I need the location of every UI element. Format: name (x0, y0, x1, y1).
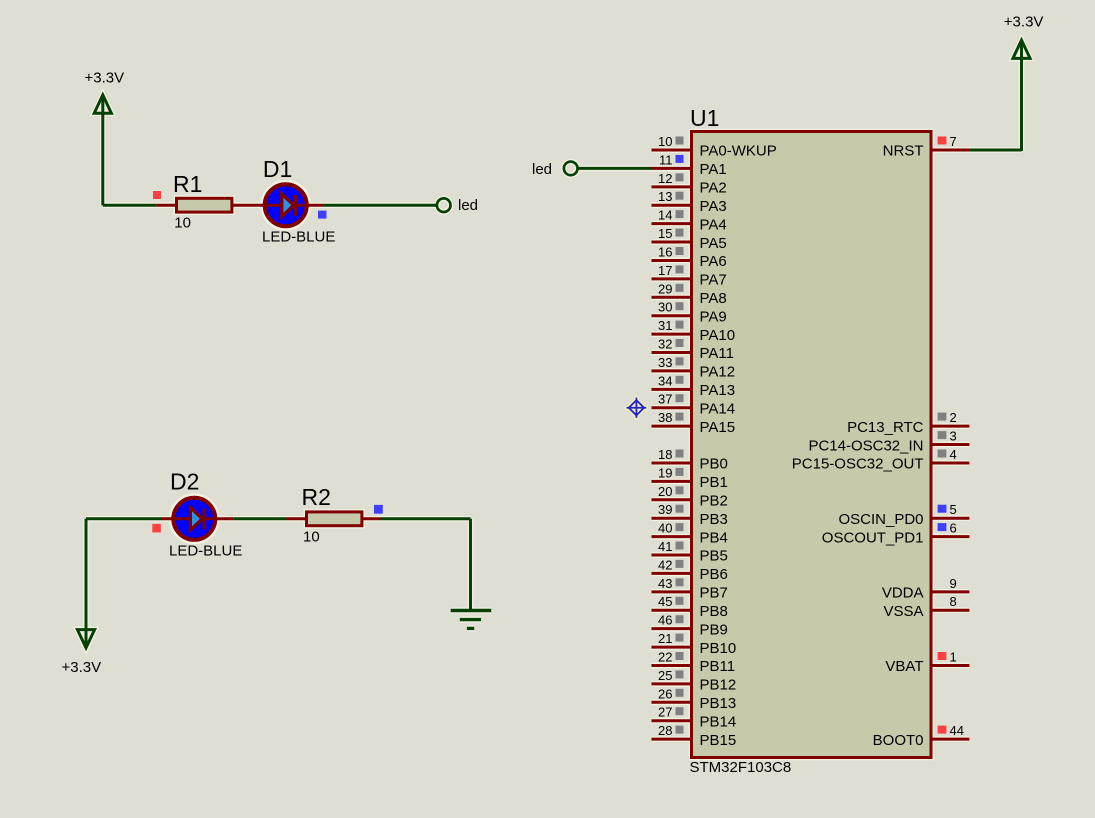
svg-text:PB13: PB13 (700, 695, 737, 712)
svg-text:37: 37 (658, 392, 672, 407)
svg-text:+3.3V: +3.3V (85, 70, 125, 87)
svg-text:PC13_RTC: PC13_RTC (847, 419, 924, 436)
svg-text:LED-BLUE: LED-BLUE (262, 228, 335, 245)
svg-text:13: 13 (658, 189, 672, 204)
svg-text:15: 15 (658, 226, 672, 241)
svg-text:10: 10 (174, 215, 191, 232)
svg-text:PA6: PA6 (700, 253, 727, 270)
svg-text:6: 6 (950, 521, 957, 536)
svg-text:34: 34 (658, 373, 672, 388)
svg-text:PB10: PB10 (700, 640, 737, 657)
svg-text:PB12: PB12 (700, 677, 737, 694)
svg-text:PA13: PA13 (700, 382, 736, 399)
svg-text:44: 44 (950, 723, 964, 738)
svg-text:32: 32 (658, 337, 672, 352)
svg-text:19: 19 (658, 465, 672, 480)
svg-text:+3.3V: +3.3V (62, 659, 102, 676)
svg-text:OSCIN_PD0: OSCIN_PD0 (838, 511, 923, 528)
svg-text:42: 42 (658, 557, 672, 572)
svg-text:26: 26 (658, 686, 672, 701)
svg-text:PB8: PB8 (700, 603, 728, 620)
svg-text:PA11: PA11 (700, 345, 734, 362)
svg-text:PA3: PA3 (700, 198, 727, 215)
svg-text:PA0-WKUP: PA0-WKUP (700, 143, 777, 160)
svg-text:39: 39 (658, 502, 672, 517)
svg-text:PB6: PB6 (700, 566, 728, 583)
svg-text:PB5: PB5 (700, 548, 728, 565)
svg-text:PA1: PA1 (700, 161, 727, 178)
svg-text:PA4: PA4 (700, 216, 727, 233)
svg-text:PB7: PB7 (700, 585, 728, 602)
svg-text:9: 9 (950, 576, 957, 591)
svg-text:led: led (532, 161, 552, 178)
svg-text:45: 45 (658, 594, 672, 609)
svg-text:4: 4 (950, 447, 957, 462)
svg-text:+3.3V: +3.3V (1004, 14, 1044, 31)
svg-text:8: 8 (950, 594, 957, 609)
svg-text:22: 22 (658, 650, 672, 665)
svg-text:10: 10 (658, 134, 672, 149)
svg-text:U1: U1 (690, 105, 719, 131)
svg-text:OSCOUT_PD1: OSCOUT_PD1 (822, 529, 924, 546)
svg-text:PA12: PA12 (700, 364, 736, 381)
svg-text:1: 1 (950, 650, 957, 665)
svg-text:PA7: PA7 (700, 272, 727, 289)
svg-text:PA10: PA10 (700, 327, 736, 344)
svg-text:STM32F103C8: STM32F103C8 (690, 759, 792, 776)
svg-text:PA15: PA15 (700, 419, 736, 436)
svg-text:BOOT0: BOOT0 (873, 732, 924, 749)
svg-text:14: 14 (658, 208, 672, 223)
svg-text:7: 7 (950, 134, 957, 149)
svg-text:31: 31 (658, 318, 672, 333)
svg-text:led: led (458, 197, 478, 214)
svg-text:21: 21 (658, 631, 672, 646)
svg-text:2: 2 (950, 410, 957, 425)
svg-text:NRST: NRST (883, 143, 924, 160)
svg-text:33: 33 (658, 355, 672, 370)
svg-text:D2: D2 (170, 469, 199, 495)
svg-text:VBAT: VBAT (885, 658, 923, 675)
svg-text:10: 10 (303, 529, 320, 546)
svg-text:41: 41 (658, 539, 672, 554)
svg-text:LED-BLUE: LED-BLUE (169, 542, 242, 559)
svg-text:VSSA: VSSA (883, 603, 923, 620)
svg-text:PA5: PA5 (700, 235, 727, 252)
svg-text:43: 43 (658, 576, 672, 591)
svg-text:PB0: PB0 (700, 456, 728, 473)
svg-text:R2: R2 (302, 484, 331, 510)
svg-text:3: 3 (950, 429, 957, 444)
svg-text:PA8: PA8 (700, 290, 727, 307)
svg-text:PB14: PB14 (700, 713, 737, 730)
svg-text:29: 29 (658, 281, 672, 296)
svg-text:R1: R1 (173, 171, 202, 197)
svg-text:5: 5 (950, 502, 957, 517)
svg-text:46: 46 (658, 613, 672, 628)
svg-text:PB1: PB1 (700, 474, 728, 491)
svg-text:25: 25 (658, 668, 672, 683)
svg-text:30: 30 (658, 300, 672, 315)
svg-text:PB9: PB9 (700, 621, 728, 638)
svg-text:PA2: PA2 (700, 180, 727, 197)
svg-text:PB11: PB11 (700, 658, 736, 675)
svg-text:11: 11 (659, 152, 673, 167)
svg-text:20: 20 (658, 484, 672, 499)
svg-text:PB3: PB3 (700, 511, 728, 528)
svg-text:17: 17 (658, 263, 672, 278)
svg-text:18: 18 (658, 447, 672, 462)
svg-text:38: 38 (658, 410, 672, 425)
svg-text:27: 27 (658, 705, 672, 720)
svg-text:12: 12 (658, 171, 672, 186)
svg-text:PC15-OSC32_OUT: PC15-OSC32_OUT (792, 456, 924, 473)
svg-text:VDDA: VDDA (882, 585, 924, 602)
svg-text:40: 40 (658, 521, 672, 536)
svg-text:PA9: PA9 (700, 308, 727, 325)
svg-text:PA14: PA14 (700, 400, 736, 417)
svg-text:16: 16 (658, 245, 672, 260)
svg-text:PC14-OSC32_IN: PC14-OSC32_IN (808, 437, 923, 454)
svg-text:28: 28 (658, 723, 672, 738)
svg-text:D1: D1 (263, 156, 292, 182)
svg-text:PB4: PB4 (700, 529, 728, 546)
svg-text:PB2: PB2 (700, 493, 728, 510)
svg-text:PB15: PB15 (700, 732, 737, 749)
